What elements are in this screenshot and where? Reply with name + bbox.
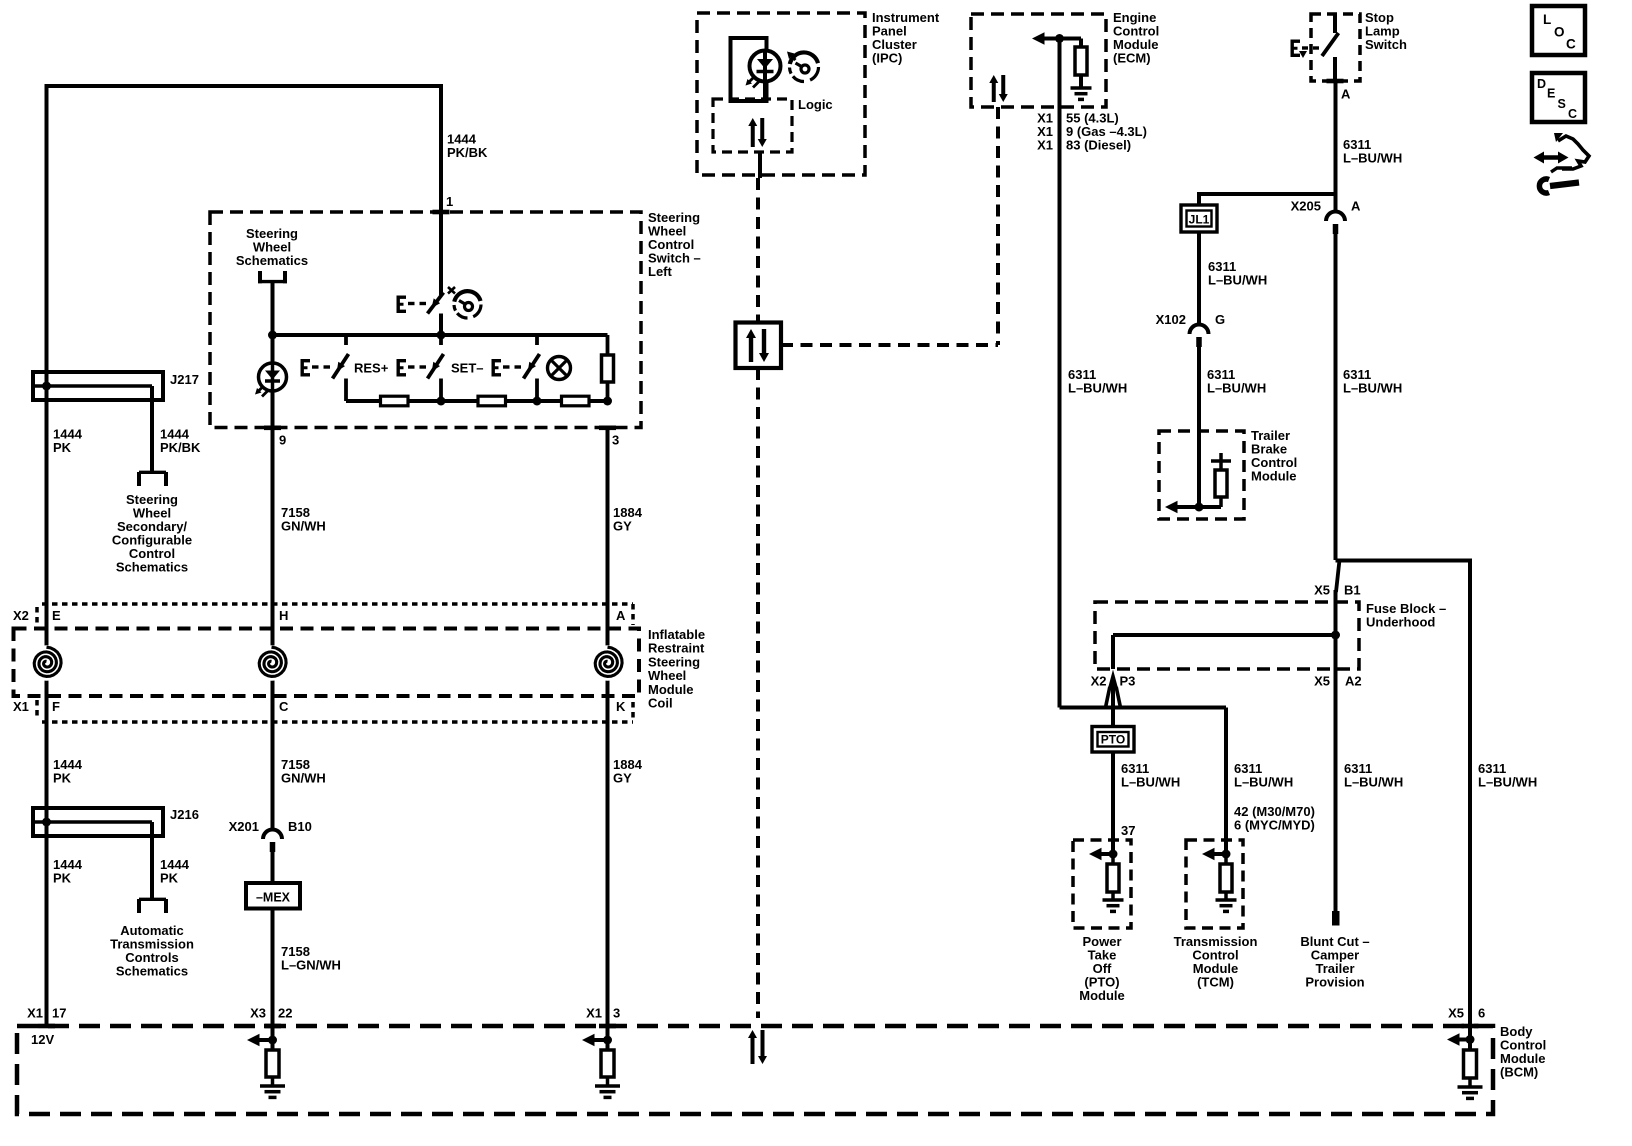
label X2 row pins	[13, 608, 626, 623]
label X5 6	[1448, 1006, 1485, 1021]
label 6311 L-BU/WH (ECM)	[1068, 367, 1127, 396]
svg-text:F: F	[52, 699, 60, 714]
svg-text:L–BU/WH: L–BU/WH	[1234, 775, 1293, 790]
svg-text:Module: Module	[1251, 469, 1297, 484]
label Transmission Control Module (TCM)	[1174, 934, 1258, 990]
svg-text:Underhood: Underhood	[1366, 615, 1435, 630]
svg-text:L: L	[1543, 12, 1551, 27]
label Power Take Off (PTO) Module	[1079, 934, 1125, 1003]
svg-text:9: 9	[279, 433, 286, 448]
svg-text:X1: X1	[27, 1006, 43, 1021]
PTO module resistor	[1107, 854, 1119, 899]
off-page bracket steering wheel schematics	[258, 271, 287, 283]
ECM input arrow	[1032, 32, 1060, 44]
BCM resistor X1-3	[601, 1050, 614, 1085]
svg-text:PTO: PTO	[1101, 733, 1125, 747]
svg-text:Coil: Coil	[648, 696, 673, 711]
svg-text:PK/BK: PK/BK	[160, 440, 201, 455]
cruise master switch S1	[397, 287, 456, 314]
svg-text:(TCM): (TCM)	[1197, 975, 1234, 990]
svg-text:6: 6	[1478, 1006, 1485, 1021]
wire 1444 PK left vertical	[45, 86, 49, 1026]
BCM ground X1-3	[595, 1086, 620, 1097]
connector X102	[1190, 325, 1209, 348]
resistor R1	[381, 396, 409, 406]
dashed wire box to ECM	[781, 343, 998, 347]
ECM ground	[1071, 88, 1092, 99]
label X205 pin A	[1351, 199, 1361, 214]
connector row X1 dotted	[37, 700, 633, 722]
BCM input arrow X1-3	[582, 1034, 608, 1046]
svg-text:Switch: Switch	[1365, 37, 1407, 52]
svg-text:S: S	[1558, 97, 1566, 111]
label X201	[229, 819, 259, 834]
svg-text:P3: P3	[1120, 674, 1136, 689]
illumination LED	[255, 335, 287, 429]
svg-text:Schematics: Schematics	[116, 964, 188, 979]
svg-text:X5: X5	[1448, 1006, 1464, 1021]
label automatic transmission controls schematics	[110, 923, 194, 979]
bus wire top inside switch box	[273, 333, 608, 337]
junction dot X1-3	[603, 1026, 612, 1050]
BCM input arrow X5-6	[1447, 1033, 1470, 1045]
resistor R3	[562, 396, 590, 406]
label X102 pin G	[1215, 312, 1225, 327]
svg-text:Schematics: Schematics	[116, 560, 188, 575]
fuse block jumper wire	[1113, 635, 1336, 669]
wire 6311 X205 to fuse block	[1336, 234, 1340, 602]
tick pin 3	[599, 426, 616, 431]
BCM ground X5-6	[1458, 1087, 1483, 1098]
trailer brake control module box	[1159, 431, 1244, 519]
off-page bracket to steering wheel secondary	[139, 472, 166, 486]
dashed wire IPC to BCM	[756, 368, 760, 1018]
svg-text:Module: Module	[1079, 988, 1125, 1003]
cruise gauge icon	[454, 291, 481, 318]
tick BCM pin X3-22	[264, 1024, 281, 1029]
svg-text:L–BU/WH: L–BU/WH	[1068, 381, 1127, 396]
tick pin 1	[433, 210, 450, 215]
junction dot PTO	[1109, 850, 1118, 859]
resistor R2	[478, 396, 506, 406]
label Steering Wheel Control Switch - Left	[648, 210, 701, 279]
svg-text:22: 22	[278, 1006, 292, 1021]
label TCM pins 42/6	[1234, 804, 1315, 833]
coil module box	[14, 629, 640, 697]
svg-text:L–BU/WH: L–BU/WH	[1344, 775, 1403, 790]
svg-text:B1: B1	[1344, 583, 1361, 598]
steering wheel control switch box	[210, 212, 641, 428]
harness routing icon	[1534, 133, 1590, 193]
wire X102 to trailer module	[1197, 347, 1201, 507]
trailer module input arrow	[1165, 501, 1221, 513]
svg-text:L–GN/WH: L–GN/WH	[281, 958, 341, 973]
label X5 B1	[1314, 583, 1361, 598]
TCM module input arrow	[1202, 848, 1226, 860]
connector row X2 dotted	[37, 604, 633, 625]
svg-text:D: D	[1537, 77, 1546, 91]
label Trailer Brake Control Module	[1251, 428, 1297, 484]
svg-text:X5: X5	[1314, 674, 1330, 689]
label 1444 PK/BK	[447, 132, 488, 161]
svg-text:12V: 12V	[31, 1032, 54, 1047]
wire 7158 GN/WH	[271, 426, 275, 828]
label 6311 L-BU/WH (TCM)	[1234, 761, 1293, 790]
tick BCM pin X1-17	[38, 1024, 55, 1029]
svg-text:H: H	[279, 608, 288, 623]
IPC indicator LED	[746, 51, 781, 102]
svg-text:K: K	[616, 699, 626, 714]
wire switch to bus	[439, 314, 443, 338]
svg-text:X2: X2	[1091, 674, 1107, 689]
svg-text:A: A	[1351, 199, 1361, 214]
connector X201 B10	[263, 830, 282, 853]
junction dot trailer	[1195, 503, 1204, 512]
LOC legend box	[1532, 6, 1585, 55]
wire inside fuse block	[1334, 602, 1338, 669]
label Steering Wheel Schematics	[236, 226, 308, 268]
splice pack PTO	[1092, 727, 1134, 753]
label 12V	[31, 1032, 54, 1047]
logic updown arrows	[748, 118, 767, 147]
svg-text:Provision: Provision	[1305, 975, 1364, 990]
wire bracket to bus	[271, 282, 275, 337]
junction dot bus-LED	[268, 331, 277, 340]
svg-text:O: O	[1554, 25, 1565, 40]
svg-text:37: 37	[1121, 823, 1135, 838]
BCM serial data updown arrows	[748, 1030, 767, 1064]
junction dot J216	[42, 818, 51, 827]
wire 6311 from stop lamp	[1334, 81, 1338, 212]
svg-text:X2: X2	[13, 608, 29, 623]
label 7158 GN/WH (lower)	[281, 757, 326, 786]
connector X205	[1326, 212, 1345, 234]
svg-text:E: E	[1547, 87, 1555, 101]
label 1444 PK (bottom left)	[53, 857, 83, 886]
wire 6311 JL1 down	[1197, 232, 1201, 325]
svg-text:83 (Diesel): 83 (Diesel)	[1066, 138, 1131, 153]
svg-text:3: 3	[612, 433, 619, 448]
tick BCM pin X1-3	[599, 1024, 616, 1029]
svg-text:–MEX: –MEX	[256, 891, 291, 905]
svg-text:X1: X1	[586, 1006, 602, 1021]
wire 1444 PK/BK vertical to switch	[439, 84, 443, 295]
svg-text:A: A	[1341, 87, 1351, 102]
label RES+	[354, 361, 389, 376]
splice -MEX	[246, 883, 300, 909]
coil L1	[29, 645, 65, 681]
coil L3	[590, 645, 626, 681]
serial data arrow box	[736, 323, 782, 369]
label Stop Lamp Switch	[1365, 10, 1407, 52]
label 6311 L-BU/WH (blunt cut)	[1344, 761, 1403, 790]
svg-text:J216: J216	[170, 807, 199, 822]
wire J216 tap	[150, 822, 154, 901]
PTO module input arrow	[1089, 848, 1113, 860]
BCM ground X3-22	[260, 1086, 285, 1097]
P3 arrow	[1106, 670, 1121, 708]
coil L2	[254, 645, 290, 681]
svg-text:E: E	[52, 608, 61, 623]
label Blunt Cut - Camper Trailer Provision	[1300, 934, 1369, 990]
svg-text:GN/WH: GN/WH	[281, 771, 326, 786]
label 1444 PK (upper left)	[53, 427, 83, 456]
label PTO pin 37	[1121, 823, 1135, 838]
svg-text:(ECM): (ECM)	[1113, 51, 1151, 66]
svg-text:(BCM): (BCM)	[1500, 1065, 1538, 1080]
svg-text:C: C	[1566, 37, 1576, 52]
junction dot TCM	[1222, 850, 1231, 859]
BCM resistor X3-22	[266, 1050, 279, 1085]
svg-text:X201: X201	[229, 819, 259, 834]
label pin A	[1341, 87, 1351, 102]
PTO module ground	[1103, 900, 1124, 911]
svg-text:G: G	[1215, 312, 1225, 327]
TCM module resistor	[1220, 854, 1232, 899]
label J216	[170, 807, 199, 822]
wire 1884 GY	[606, 426, 610, 1026]
pin 3 label	[612, 433, 619, 448]
label X2 P3	[1091, 674, 1136, 689]
instrument panel cluster box	[697, 13, 865, 175]
svg-text:J217: J217	[170, 372, 199, 387]
pin 1 label	[446, 194, 453, 209]
label 6311 L-BU/WH (JL1)	[1208, 259, 1267, 288]
ECM updown arrows	[989, 75, 1008, 102]
label inflatable restraint steering wheel module coil	[648, 627, 705, 711]
svg-text:(IPC): (IPC)	[872, 51, 902, 66]
pin 9 label	[279, 433, 286, 448]
wire 6311 ECM vertical	[1058, 39, 1062, 708]
tick pin 9	[264, 426, 281, 431]
svg-text:L–BU/WH: L–BU/WH	[1208, 273, 1267, 288]
label 6311 L-BU/WH (stop lamp)	[1343, 137, 1402, 166]
svg-text:X102: X102	[1156, 312, 1186, 327]
svg-text:17: 17	[52, 1006, 66, 1021]
label steering wheel secondary schematics	[112, 492, 192, 575]
wire logic out	[758, 152, 762, 178]
svg-text:L–BU/WH: L–BU/WH	[1478, 775, 1537, 790]
off-page bracket to automatic transmission	[139, 899, 166, 913]
label Fuse Block - Underhood	[1366, 601, 1446, 630]
junction dot ECM	[1055, 34, 1064, 43]
svg-text:GN/WH: GN/WH	[281, 519, 326, 534]
connector J216	[33, 808, 163, 836]
junction dot bus2-right	[603, 397, 612, 406]
logic box	[713, 99, 792, 152]
wire X201 to MEX	[271, 852, 275, 884]
svg-text:X1: X1	[1037, 138, 1053, 153]
svg-text:PK: PK	[53, 871, 72, 886]
wire J217 tap	[150, 386, 154, 474]
svg-text:L–BU/WH: L–BU/WH	[1207, 381, 1266, 396]
label 1444 PK (J216 tap)	[160, 857, 190, 886]
label X1 17	[27, 1006, 66, 1021]
wire blunt cut	[1334, 669, 1338, 913]
svg-text:B10: B10	[288, 819, 312, 834]
label 7158 GN/WH	[281, 505, 326, 534]
lamp symbol circle-X	[548, 357, 571, 380]
label 6311 L-BU/WH (X102)	[1207, 367, 1266, 396]
svg-text:X1: X1	[13, 699, 29, 714]
label 7158 L-GN/WH	[281, 944, 341, 973]
svg-text:JL1: JL1	[1189, 213, 1210, 227]
ECM pullup resistor	[1060, 39, 1088, 88]
svg-text:Left: Left	[648, 264, 673, 279]
label 1884 GY	[613, 505, 643, 534]
wire ECM-P3-TCM junction	[1060, 688, 1227, 854]
label Engine Control Module (ECM)	[1113, 10, 1159, 66]
blunt cut terminator	[1332, 911, 1340, 926]
label Instrument Panel Cluster (IPC)	[872, 10, 940, 66]
label Body Control Module (BCM)	[1500, 1024, 1546, 1080]
wire branch to BCM	[1336, 559, 1471, 1027]
stop lamp switch contacts	[1291, 14, 1339, 81]
svg-text:PK: PK	[53, 440, 72, 455]
svg-text:6 (MYC/MYD): 6 (MYC/MYD)	[1234, 818, 1315, 833]
trailer pullup resistor	[1211, 453, 1231, 507]
label 1444 PK/BK (J217 tap)	[160, 427, 201, 456]
svg-text:X205: X205	[1291, 199, 1321, 214]
svg-text:SET–: SET–	[451, 361, 484, 376]
DESC legend box	[1532, 73, 1585, 122]
label X3 22	[250, 1006, 292, 1021]
wire 7158 L-GN/WH	[271, 909, 275, 1027]
label B10	[288, 819, 312, 834]
label Logic	[798, 97, 833, 112]
junction dot bus2-SET	[437, 397, 446, 406]
wire 1444 PK/BK top horizontal	[45, 84, 442, 88]
switch RES+	[301, 335, 349, 401]
svg-text:C: C	[1568, 107, 1577, 121]
svg-text:1: 1	[446, 194, 453, 209]
svg-text:A: A	[616, 608, 626, 623]
BCM resistor X5-6	[1464, 1050, 1477, 1086]
IPC indicator frame	[731, 38, 767, 101]
switch cancel	[492, 335, 540, 401]
stop lamp switch box	[1311, 14, 1360, 81]
tick BCM pin X5-6	[1462, 1024, 1479, 1029]
junction dot bus2-cancel	[533, 397, 542, 406]
svg-text:PK: PK	[160, 871, 179, 886]
svg-text:GY: GY	[613, 771, 632, 786]
fuse block underhood box	[1095, 602, 1359, 669]
svg-text:GY: GY	[613, 519, 632, 534]
TCM module box	[1186, 840, 1243, 928]
svg-text:L–BU/WH: L–BU/WH	[1121, 775, 1180, 790]
resistor ladder bottom bus	[346, 399, 608, 403]
label 6311 L-BU/WH (BCM)	[1478, 761, 1537, 790]
resistor R4 vertical	[602, 335, 614, 401]
svg-text:RES+: RES+	[354, 361, 389, 376]
svg-text:X3: X3	[250, 1006, 266, 1021]
svg-text:PK: PK	[53, 771, 72, 786]
svg-text:A2: A2	[1345, 674, 1362, 689]
label 1884 GY (lower)	[613, 757, 643, 786]
label X5 A2	[1314, 674, 1362, 689]
connector J217	[33, 372, 163, 400]
label X205	[1291, 199, 1321, 214]
dashed wire IPC down	[756, 178, 760, 322]
junction dot bus-S1	[437, 331, 446, 340]
svg-text:L–BU/WH: L–BU/WH	[1343, 151, 1402, 166]
body control module box	[17, 1026, 1493, 1114]
label 1444 PK (lower)	[53, 757, 83, 786]
TCM module ground	[1216, 900, 1237, 911]
dashed wire ECM down	[996, 107, 1000, 345]
svg-text:Logic: Logic	[798, 97, 833, 112]
switch SET-	[397, 335, 444, 401]
svg-text:X5: X5	[1314, 583, 1330, 598]
label X1 3	[586, 1006, 620, 1021]
svg-text:L–BU/WH: L–BU/WH	[1343, 381, 1402, 396]
engine control module box	[971, 14, 1106, 107]
junction dot X5-6	[1466, 1026, 1475, 1050]
label 6311 L-BU/WH (mid)	[1343, 367, 1402, 396]
junction dot J217	[42, 382, 51, 391]
BCM input arrow X3-22	[247, 1034, 273, 1046]
junction dot X3-22	[268, 1026, 277, 1050]
label X102	[1156, 312, 1186, 327]
svg-text:Schematics: Schematics	[236, 253, 308, 268]
svg-text:C: C	[279, 699, 289, 714]
svg-text:3: 3	[613, 1006, 620, 1021]
IPC gauge icon	[787, 52, 819, 82]
label SET-	[451, 361, 484, 376]
label X1 row pins	[13, 699, 626, 714]
tick stop lamp pin A	[1327, 79, 1344, 84]
wire JL1 to X205	[1199, 192, 1337, 206]
label 6311 L-BU/WH (PTO)	[1121, 761, 1180, 790]
PTO module box	[1073, 840, 1131, 928]
splice pack JL1	[1181, 205, 1217, 232]
junction dot fuse block	[1331, 631, 1340, 640]
label J217	[170, 372, 199, 387]
label ECM pins X1	[1037, 111, 1147, 153]
svg-text:PK/BK: PK/BK	[447, 145, 488, 160]
